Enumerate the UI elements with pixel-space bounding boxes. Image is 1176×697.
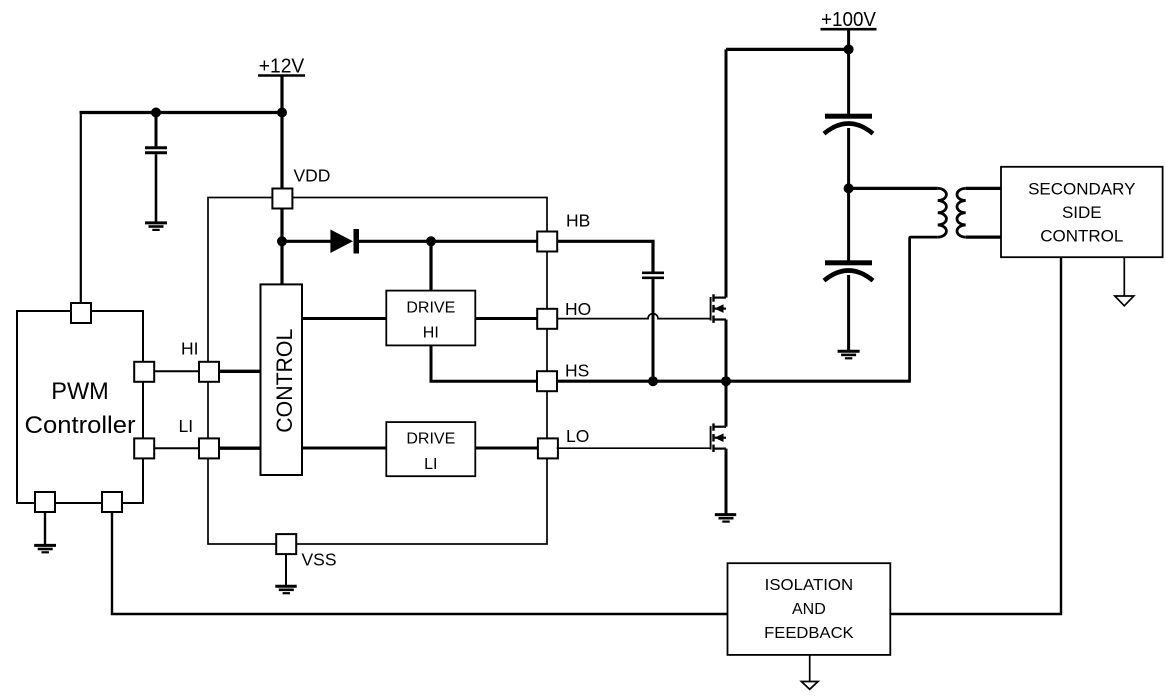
CONTROL block (261, 284, 303, 475)
ground secondary (open triangle) (1115, 296, 1134, 306)
node junction rail/+12V (277, 108, 287, 118)
wire feedback isolation to secondary (890, 257, 1061, 614)
wire DRIVE HI to HO pin (475, 317, 537, 320)
pin PWM LI out (134, 438, 154, 458)
pin HO (537, 309, 557, 329)
svg-text:CONTROL: CONTROL (272, 329, 297, 433)
capacitor C3 bulk upper (824, 114, 873, 134)
svg-text:PWM: PWM (51, 378, 109, 405)
pin HI (199, 362, 219, 382)
diode D1 (330, 229, 359, 254)
svg-text:SECONDARY: SECONDARY (1028, 180, 1135, 199)
wire C4 to ground (847, 275, 850, 350)
wire Q2 source down to ground (725, 449, 728, 514)
svg-text:+100V: +100V (821, 9, 877, 31)
capacitor C1 (145, 148, 167, 153)
wire LI chip pin to CONTROL (218, 447, 261, 450)
wire LO to Q2 gate (557, 447, 711, 449)
DRIVE LI block (386, 422, 475, 476)
pin LO (538, 438, 558, 458)
svg-text:HI: HI (181, 339, 199, 359)
svg-text:HS: HS (565, 361, 589, 381)
svg-text:AND: AND (792, 601, 826, 618)
wire junction down to DRIVE HI (429, 241, 432, 290)
wire rail down to VDD pin (280, 113, 283, 190)
wire VDD pin down to CONTROL (280, 207, 283, 284)
svg-text:Controller: Controller (25, 412, 136, 439)
wire secondary top to box (966, 187, 1001, 190)
pin HB (537, 232, 557, 252)
svg-text:DRIVE: DRIVE (406, 299, 455, 316)
wire DRIVE HI bottom to HS pin (431, 345, 537, 381)
wire HO to Q1 gate with hop (557, 314, 711, 319)
wire +100V rail to Q1 drain (726, 48, 849, 51)
ground G4 (715, 515, 736, 522)
wire CONTROL to DRIVE HI (302, 317, 386, 320)
svg-text:LI: LI (424, 456, 437, 473)
wire diode cathode to HB pin (359, 240, 537, 243)
wire Q1 drain up to +100V rail (725, 49, 728, 297)
pin LI (199, 438, 219, 458)
wire secondary ground stub (1123, 257, 1125, 296)
wire HI from PWM to chip (154, 370, 199, 372)
ground isolation (open triangle) (801, 682, 818, 690)
pin PWM GND (35, 492, 55, 512)
wire rail left down to PWM (80, 111, 82, 303)
wire between bulk caps (847, 128, 850, 261)
transformer T1 secondary winding (957, 188, 966, 237)
node +100V rail junction (844, 44, 854, 54)
svg-text:LI: LI (179, 416, 194, 436)
PWM controller block (17, 311, 143, 503)
capacitor C2 bootstrap (642, 273, 664, 278)
pin HS (537, 371, 557, 391)
wire PWM ground stem (44, 512, 46, 544)
node bulk cap midpoint / primary (844, 183, 854, 193)
pin VDD (272, 189, 292, 209)
gate driver IC boundary (208, 198, 547, 545)
wire secondary bottom to box (966, 236, 1001, 239)
secondary side control block (1001, 167, 1163, 257)
transformer T1 primary winding (938, 188, 947, 237)
wire C1 lower lead (155, 154, 158, 221)
wire diode anode (282, 240, 331, 243)
svg-text:DRIVE: DRIVE (406, 431, 455, 448)
wire +12V rail horizontal (80, 111, 282, 114)
ground G2 (34, 545, 56, 552)
wire Q2 drain up to HS (725, 381, 728, 427)
pin PWM HI out (134, 362, 154, 382)
svg-text:HO: HO (565, 299, 591, 319)
isolation and feedback block (728, 563, 891, 655)
wire Q1 source down to HS (725, 320, 728, 382)
wire LI from PWM to chip (154, 447, 199, 449)
ground G3 (275, 586, 296, 593)
wire VSS ground stem (285, 554, 287, 585)
node diode/bootstrap junction (426, 236, 436, 246)
svg-text:HI: HI (423, 325, 439, 342)
wire +100V down to cap (847, 29, 850, 114)
transistor Q1 high-side MOSFET (711, 294, 726, 323)
pin VSS (276, 534, 296, 554)
ground G1 (145, 223, 167, 230)
ground G5 (838, 351, 860, 358)
wire DRIVE LI to LO pin (475, 447, 537, 450)
svg-text:ISOLATION: ISOLATION (765, 577, 854, 594)
svg-text:CONTROL: CONTROL (1040, 227, 1123, 246)
svg-text:VSS: VSS (302, 550, 337, 570)
svg-text:HB: HB (566, 211, 590, 231)
transistor Q2 low-side MOSFET (711, 423, 726, 452)
svg-text:VDD: VDD (294, 166, 331, 186)
wire HI chip pin to CONTROL (218, 370, 261, 373)
wire C1 upper lead (155, 113, 158, 147)
node VDD/diode anode junction (277, 236, 287, 246)
node bootstrap/HS junction (648, 376, 658, 386)
wire feedback from PWM to isolation box (112, 512, 728, 614)
wire +12V down to rail (280, 76, 283, 115)
capacitor C4 bulk lower (824, 260, 873, 280)
node junction rail/C1 (151, 108, 161, 118)
supply +12V label (258, 56, 305, 78)
wire isolation ground stub (809, 655, 811, 682)
wire primary bottom to HS (910, 237, 938, 381)
node half-bridge switch node (721, 376, 731, 386)
supply +100V label (821, 9, 877, 31)
wire HS node line (557, 380, 911, 383)
svg-text:FEEDBACK: FEEDBACK (764, 625, 854, 642)
wire HB to bootstrap cap (557, 241, 653, 271)
wire CONTROL to DRIVE LI (302, 447, 386, 450)
wire primary top (849, 187, 938, 190)
svg-text:LO: LO (566, 426, 589, 446)
DRIVE HI block (386, 291, 475, 346)
pin PWM FB (102, 492, 122, 512)
svg-text:SIDE: SIDE (1062, 203, 1102, 222)
pin PWM VCC (top) (71, 303, 91, 323)
wire bootstrap cap to HS (652, 279, 655, 381)
